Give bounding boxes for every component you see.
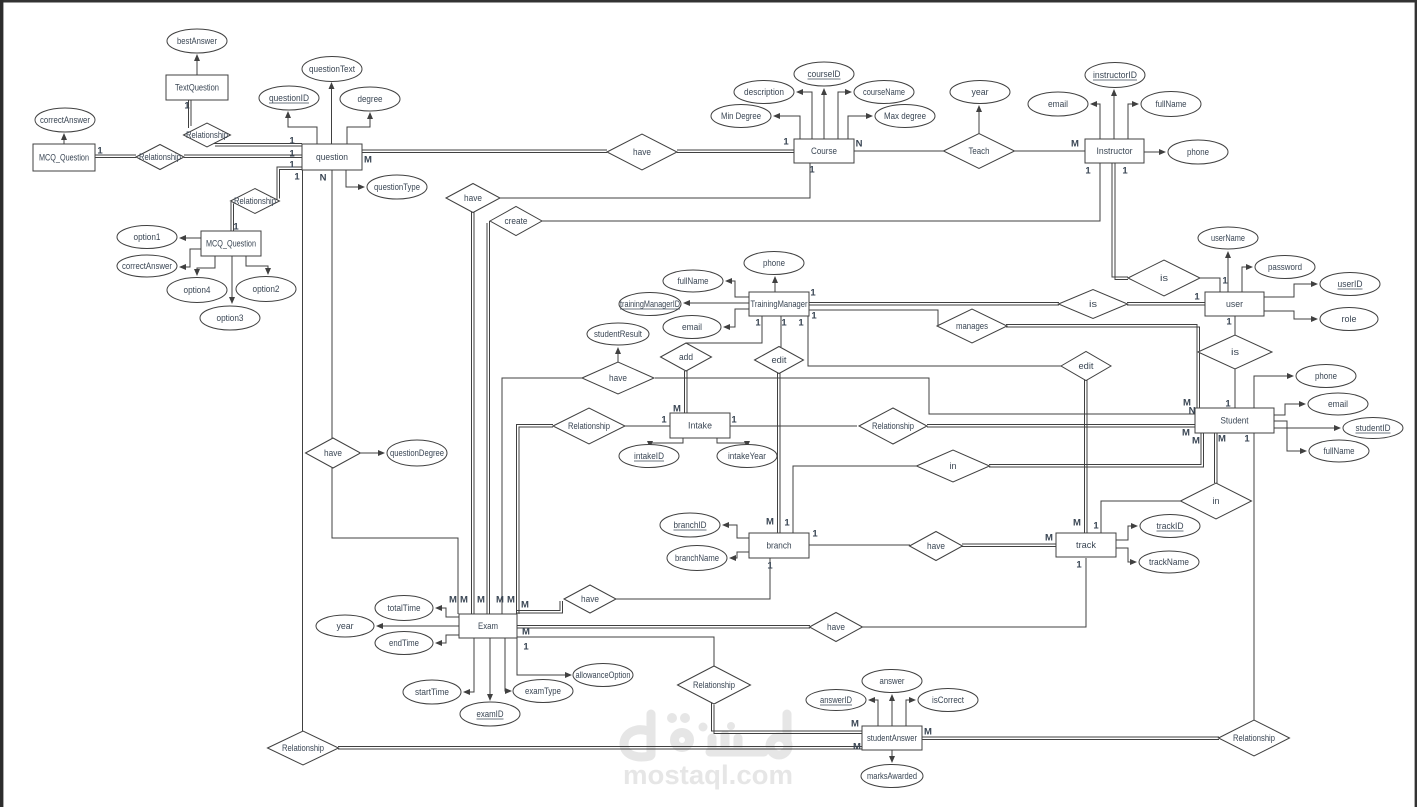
svg-text:fullName: fullName [678,276,709,286]
svg-text:correctAnswer: correctAnswer [40,115,90,125]
svg-text:intakeYear: intakeYear [728,451,766,461]
svg-text:trainingManagerID: trainingManagerID [620,299,680,309]
svg-text:add: add [679,352,693,362]
svg-text:in: in [950,461,957,471]
svg-text:N: N [856,139,863,150]
svg-text:year: year [337,621,354,631]
svg-text:M: M [460,595,468,606]
svg-text:M: M [522,627,530,638]
svg-text:password: password [1268,262,1302,272]
svg-text:N: N [1189,406,1196,417]
svg-text:track: track [1076,540,1096,550]
svg-text:is: is [1231,347,1240,357]
svg-text:1: 1 [781,318,787,329]
svg-text:studentID: studentID [1356,423,1391,433]
svg-text:1: 1 [784,518,790,529]
svg-text:1: 1 [1225,399,1231,410]
svg-text:option1: option1 [134,232,161,242]
svg-text:M: M [851,719,859,730]
svg-text:questionDegree: questionDegree [390,448,444,458]
svg-text:M: M [924,727,932,738]
svg-text:is: is [1160,273,1169,283]
svg-text:userID: userID [1338,279,1363,289]
svg-text:MCQ_Question: MCQ_Question [39,153,89,163]
svg-text:1: 1 [1093,521,1099,532]
svg-text:have: have [827,622,845,632]
svg-text:fullName: fullName [1324,446,1355,456]
svg-text:1: 1 [783,137,789,148]
svg-text:1: 1 [1244,434,1250,445]
svg-text:option4: option4 [184,285,211,295]
svg-text:have: have [581,594,599,604]
svg-text:1: 1 [523,642,529,653]
svg-text:N: N [320,173,327,184]
svg-text:1: 1 [289,149,295,160]
svg-text:year: year [972,87,989,97]
svg-text:question: question [316,152,348,162]
svg-text:degree: degree [358,94,383,104]
svg-text:Relationship: Relationship [139,152,181,162]
svg-text:1: 1 [661,415,667,426]
svg-text:examType: examType [525,686,561,696]
svg-text:user: user [1226,299,1243,309]
svg-text:mostaql.com: mostaql.com [623,760,793,790]
svg-text:answerID: answerID [820,695,852,705]
svg-text:M: M [1182,428,1190,439]
svg-text:role: role [1342,314,1357,324]
svg-text:intakeID: intakeID [634,451,664,461]
svg-text:M: M [507,595,515,606]
svg-text:1: 1 [811,311,817,322]
svg-text:M: M [853,742,861,753]
svg-text:1: 1 [809,165,815,176]
svg-text:M: M [521,600,529,611]
svg-text:Exam: Exam [478,621,498,631]
svg-text:M: M [364,155,372,166]
svg-text:1: 1 [755,318,761,329]
svg-text:Relationship: Relationship [186,130,228,140]
svg-text:Instructor: Instructor [1097,146,1133,156]
svg-text:Relationship: Relationship [693,680,735,690]
svg-text:answer: answer [880,676,905,686]
svg-text:branch: branch [767,541,792,551]
svg-text:1: 1 [731,415,737,426]
svg-text:1: 1 [294,172,300,183]
svg-text:1: 1 [810,288,816,299]
svg-text:instructorID: instructorID [1093,70,1137,80]
svg-text:trackID: trackID [1157,521,1184,531]
svg-text:phone: phone [1315,371,1337,381]
svg-text:1: 1 [97,146,103,157]
svg-text:TextQuestion: TextQuestion [175,83,219,93]
svg-text:questionID: questionID [269,93,309,103]
svg-text:marksAwarded: marksAwarded [867,771,917,781]
svg-text:have: have [464,193,482,203]
svg-text:fullName: fullName [1156,99,1187,109]
svg-text:Teach: Teach [969,146,990,156]
svg-text:M: M [496,595,504,606]
svg-text:email: email [682,322,702,332]
svg-text:have: have [609,373,627,383]
svg-text:M: M [477,595,485,606]
svg-text:studentResult: studentResult [594,329,642,339]
svg-text:M: M [1192,436,1200,447]
svg-text:courseID: courseID [808,69,841,79]
svg-text:M: M [1218,434,1226,445]
svg-text:have: have [633,147,651,157]
svg-text:M: M [1045,533,1053,544]
svg-text:is: is [1089,299,1098,309]
svg-text:have: have [324,448,342,458]
svg-text:1: 1 [233,222,239,233]
svg-text:Relationship: Relationship [568,421,610,431]
svg-text:questionText: questionText [309,64,355,74]
svg-text:trackName: trackName [1149,557,1189,567]
svg-text:1: 1 [798,318,804,329]
svg-text:option3: option3 [217,313,244,323]
svg-text:1: 1 [812,529,818,540]
svg-text:phone: phone [1187,147,1209,157]
svg-text:Relationship: Relationship [872,421,914,431]
svg-text:M: M [766,517,774,528]
svg-text:studentAnswer: studentAnswer [867,733,917,743]
svg-text:totalTime: totalTime [388,603,421,613]
svg-text:description: description [744,87,784,97]
svg-text:M: M [1073,518,1081,529]
svg-text:M: M [449,595,457,606]
svg-text:allowanceOption: allowanceOption [576,670,631,680]
svg-text:1: 1 [767,561,773,572]
svg-text:manages: manages [956,321,988,331]
svg-text:courseName: courseName [863,87,905,97]
svg-text:examID: examID [477,709,504,719]
svg-text:correctAnswer: correctAnswer [122,261,172,271]
svg-text:startTime: startTime [415,687,449,697]
svg-text:branchName: branchName [675,553,719,563]
svg-text:bestAnswer: bestAnswer [177,36,217,46]
svg-text:create: create [505,216,528,226]
svg-text:1: 1 [1122,166,1128,177]
svg-text:edit: edit [772,355,788,365]
svg-text:Min Degree: Min Degree [721,111,761,121]
svg-text:Student: Student [1221,416,1249,426]
svg-text:1: 1 [1226,317,1232,328]
svg-text:1: 1 [289,160,295,171]
svg-text:isCorrect: isCorrect [932,695,964,705]
svg-text:MCQ_Question: MCQ_Question [206,239,256,249]
svg-text:TrainingManager: TrainingManager [751,299,808,309]
svg-text:Relationship: Relationship [1233,733,1275,743]
svg-text:email: email [1048,99,1068,109]
svg-text:in: in [1213,496,1220,506]
svg-text:M: M [673,404,681,415]
svg-text:option2: option2 [253,284,280,294]
svg-text:1: 1 [1194,292,1200,303]
svg-text:edit: edit [1079,361,1095,371]
svg-text:userName: userName [1211,233,1245,243]
svg-text:1: 1 [184,101,190,112]
svg-text:Relationship: Relationship [282,743,324,753]
svg-text:Intake: Intake [688,421,712,431]
svg-text:phone: phone [763,258,785,268]
svg-text:endTime: endTime [389,638,419,648]
svg-text:1: 1 [1085,166,1091,177]
svg-text:1: 1 [289,136,295,147]
svg-text:Course: Course [811,146,837,156]
svg-text:1: 1 [1222,276,1228,287]
svg-text:M: M [1071,139,1079,150]
svg-text:branchID: branchID [674,520,707,530]
svg-text:Max degree: Max degree [884,111,926,121]
svg-text:1: 1 [1076,560,1082,571]
svg-text:questionType: questionType [374,182,420,192]
svg-text:email: email [1328,399,1348,409]
svg-text:Relationship: Relationship [234,196,276,206]
svg-text:have: have [927,541,945,551]
